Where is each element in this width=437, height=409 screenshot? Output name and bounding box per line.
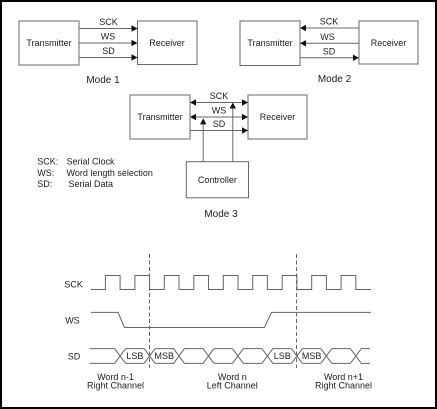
svg-text:WS:: WS: — [37, 168, 54, 178]
svg-text:Mode 3: Mode 3 — [204, 209, 238, 220]
svg-text:SCK: SCK — [99, 17, 118, 27]
svg-text:MSB: MSB — [302, 351, 322, 361]
svg-text:Transmitter: Transmitter — [247, 38, 292, 48]
svg-text:SD:: SD: — [37, 179, 52, 189]
svg-text:Right Channel: Right Channel — [87, 381, 144, 391]
svg-text:LSB: LSB — [274, 351, 291, 361]
svg-text:Receiver: Receiver — [149, 38, 185, 48]
svg-text:MSB: MSB — [155, 351, 175, 361]
svg-text:LSB: LSB — [126, 351, 143, 361]
svg-text:SD: SD — [213, 119, 226, 129]
svg-text:SD: SD — [102, 46, 115, 56]
svg-text:SD: SD — [323, 46, 336, 56]
svg-text:WS: WS — [320, 32, 335, 42]
svg-text:WS: WS — [65, 315, 80, 325]
svg-text:Transmitter: Transmitter — [137, 112, 182, 122]
svg-text:SCK:: SCK: — [37, 157, 58, 167]
svg-text:Right Channel: Right Channel — [315, 381, 372, 391]
svg-text:SCK: SCK — [320, 17, 339, 27]
svg-text:WS: WS — [212, 106, 227, 116]
svg-text:Serial Clock: Serial Clock — [67, 157, 116, 167]
svg-text:Word length selection: Word length selection — [67, 168, 153, 178]
svg-text:Receiver: Receiver — [371, 38, 407, 48]
svg-text:Left Channel: Left Channel — [207, 381, 258, 391]
svg-text:Transmitter: Transmitter — [26, 38, 71, 48]
svg-text:Controller: Controller — [198, 175, 237, 185]
svg-text:SCK: SCK — [210, 91, 229, 101]
svg-text:Receiver: Receiver — [260, 112, 296, 122]
svg-text:Mode 1: Mode 1 — [86, 75, 120, 86]
svg-text:Mode 2: Mode 2 — [318, 74, 352, 85]
svg-text:Serial Data: Serial Data — [69, 179, 114, 189]
svg-text:SCK: SCK — [64, 279, 83, 289]
svg-text:SD: SD — [68, 352, 81, 362]
svg-text:WS: WS — [101, 32, 116, 42]
